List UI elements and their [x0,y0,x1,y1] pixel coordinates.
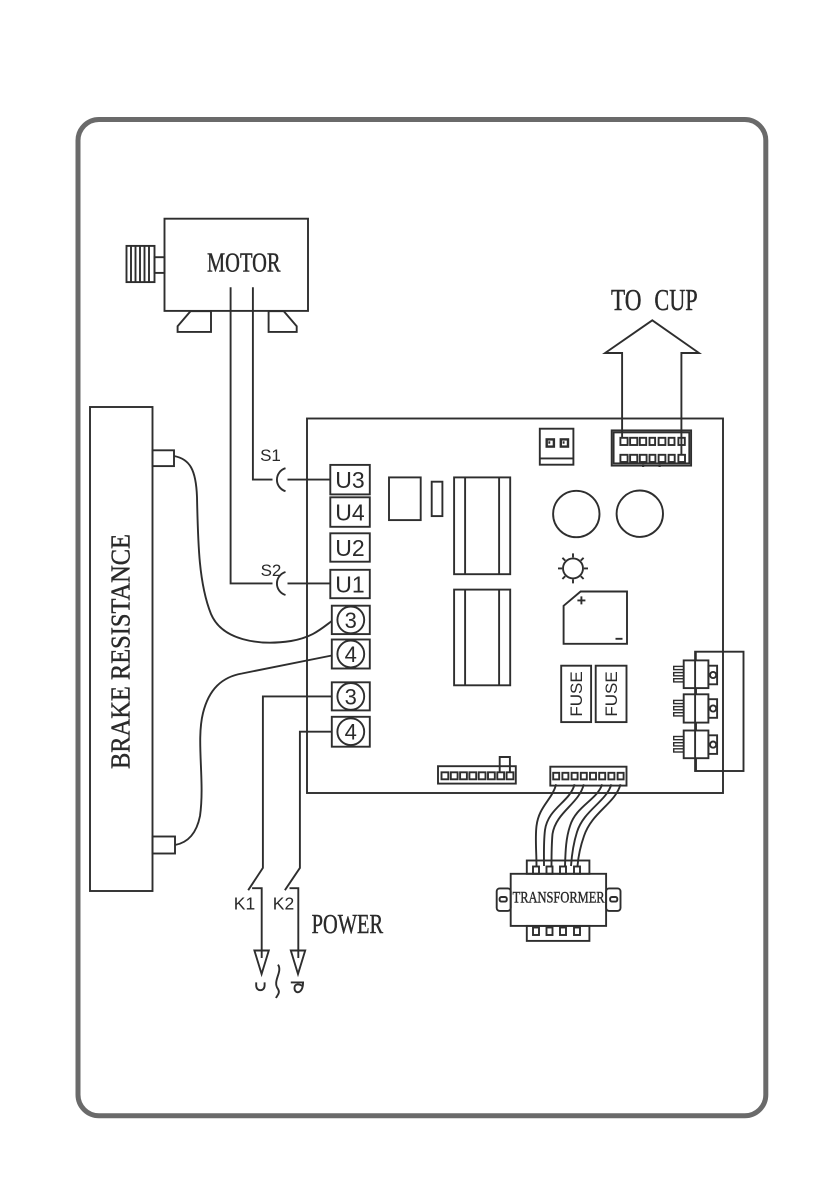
svg-text:K2: K2 [273,894,294,914]
terminal circled 4 lower [332,717,370,747]
terminal circled 3 upper [332,606,370,634]
wire motor to S2 [231,287,273,583]
fuse F2 [596,666,627,722]
wire J5 to transformer 6 [578,784,621,866]
svg-text:CUP: CUP [654,283,697,317]
edge connector block 2 [674,694,717,722]
switch S2 [277,572,286,595]
connector J2 to cup [612,430,691,465]
glyph u under K1 arrow [256,982,264,990]
svg-text:FUSE: FUSE [567,671,586,716]
edge connector block 1 [674,660,717,688]
terminal U1 [330,570,370,598]
svg-text:FUSE: FUSE [602,671,621,716]
svg-text:K1: K1 [234,894,255,914]
wire J5 to transformer 4 [565,784,602,866]
wire terminal 3 to K1 [248,696,332,890]
svg-text:TO: TO [611,283,642,317]
squiggle AC mark [276,965,279,998]
terminal circled 3 lower [332,682,370,710]
IC U5 [389,477,421,520]
svg-text:U3: U3 [335,467,364,493]
svg-text:4: 4 [345,720,357,745]
capacitor C1 [553,491,599,537]
svg-text:S2: S2 [261,561,282,580]
trimmer sun symbol [558,553,588,583]
wire J5 to transformer 1 [536,784,556,866]
border frame [78,120,766,1116]
edge connector links [695,652,697,771]
svg-text:U4: U4 [335,500,365,526]
svg-text:3: 3 [345,684,357,709]
wire motor to S1 [253,287,273,479]
wire S2 to U1 [288,582,331,584]
wire J5 to transformer 2 [544,784,575,866]
svg-text:U1: U1 [335,572,364,598]
relay RL1 [454,477,510,574]
svg-text:TRANSFORMER: TRANSFORMER [513,890,605,907]
capacitor C2 [617,491,663,537]
capacitor bar C5 [432,482,443,516]
svg-text:BRAKE RESISTANCE: BRAKE RESISTANCE [106,534,136,769]
connector J4 [438,757,516,784]
wire J5 to transformer 3 [552,784,584,866]
terminal U3 [330,465,370,495]
svg-text:U2: U2 [335,535,364,561]
wire brake top tab to terminal 3 [174,456,332,643]
switch S1 [277,468,286,491]
arrow plug K1 [254,951,268,975]
svg-text:3: 3 [345,608,357,633]
brake resistance R1 [90,407,175,891]
switch K2 contact [290,888,299,958]
connector J5 [550,767,626,786]
wire S1 to U3 [288,479,331,481]
svg-text:4: 4 [345,642,357,667]
PCB board outline [307,419,723,794]
glyph b under K2 arrow [291,982,304,992]
svg-text:POWER: POWER [312,908,384,939]
wire J5 to transformer 5 [571,784,611,866]
relay RL2 [454,590,510,686]
switch K1 contact [252,888,262,958]
edge connector block 3 [674,731,717,759]
bridge rectifier D1 [564,592,627,644]
motor M1 [127,219,309,332]
terminal circled 4 upper [332,640,370,669]
arrow to cup [605,320,699,454]
wire terminal 4 to K2 [285,732,332,891]
edge connector housing [695,652,743,771]
transformer T1 [497,861,621,941]
fuse F1 [561,666,591,722]
svg-text:S1: S1 [260,446,281,465]
terminal U4 [330,497,370,527]
arrow plug K2 [291,951,305,975]
wire brake bottom tab to terminal 4 [175,656,332,846]
svg-text:MOTOR: MOTOR [207,248,281,278]
terminal U2 [330,533,370,561]
connector J3 two pin [540,429,574,465]
